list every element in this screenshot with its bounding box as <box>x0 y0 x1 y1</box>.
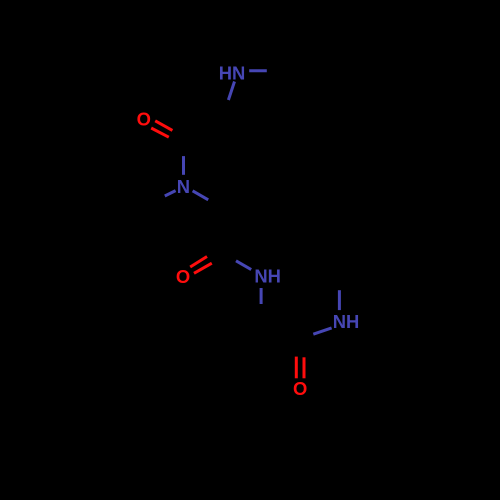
svg-text:N: N <box>177 176 190 197</box>
svg-text:NH: NH <box>254 266 281 287</box>
svg-text:O: O <box>293 378 307 399</box>
svg-text:O: O <box>137 108 151 129</box>
svg-text:NH: NH <box>333 311 360 332</box>
svg-text:HN: HN <box>219 62 246 83</box>
svg-text:O: O <box>176 266 190 287</box>
